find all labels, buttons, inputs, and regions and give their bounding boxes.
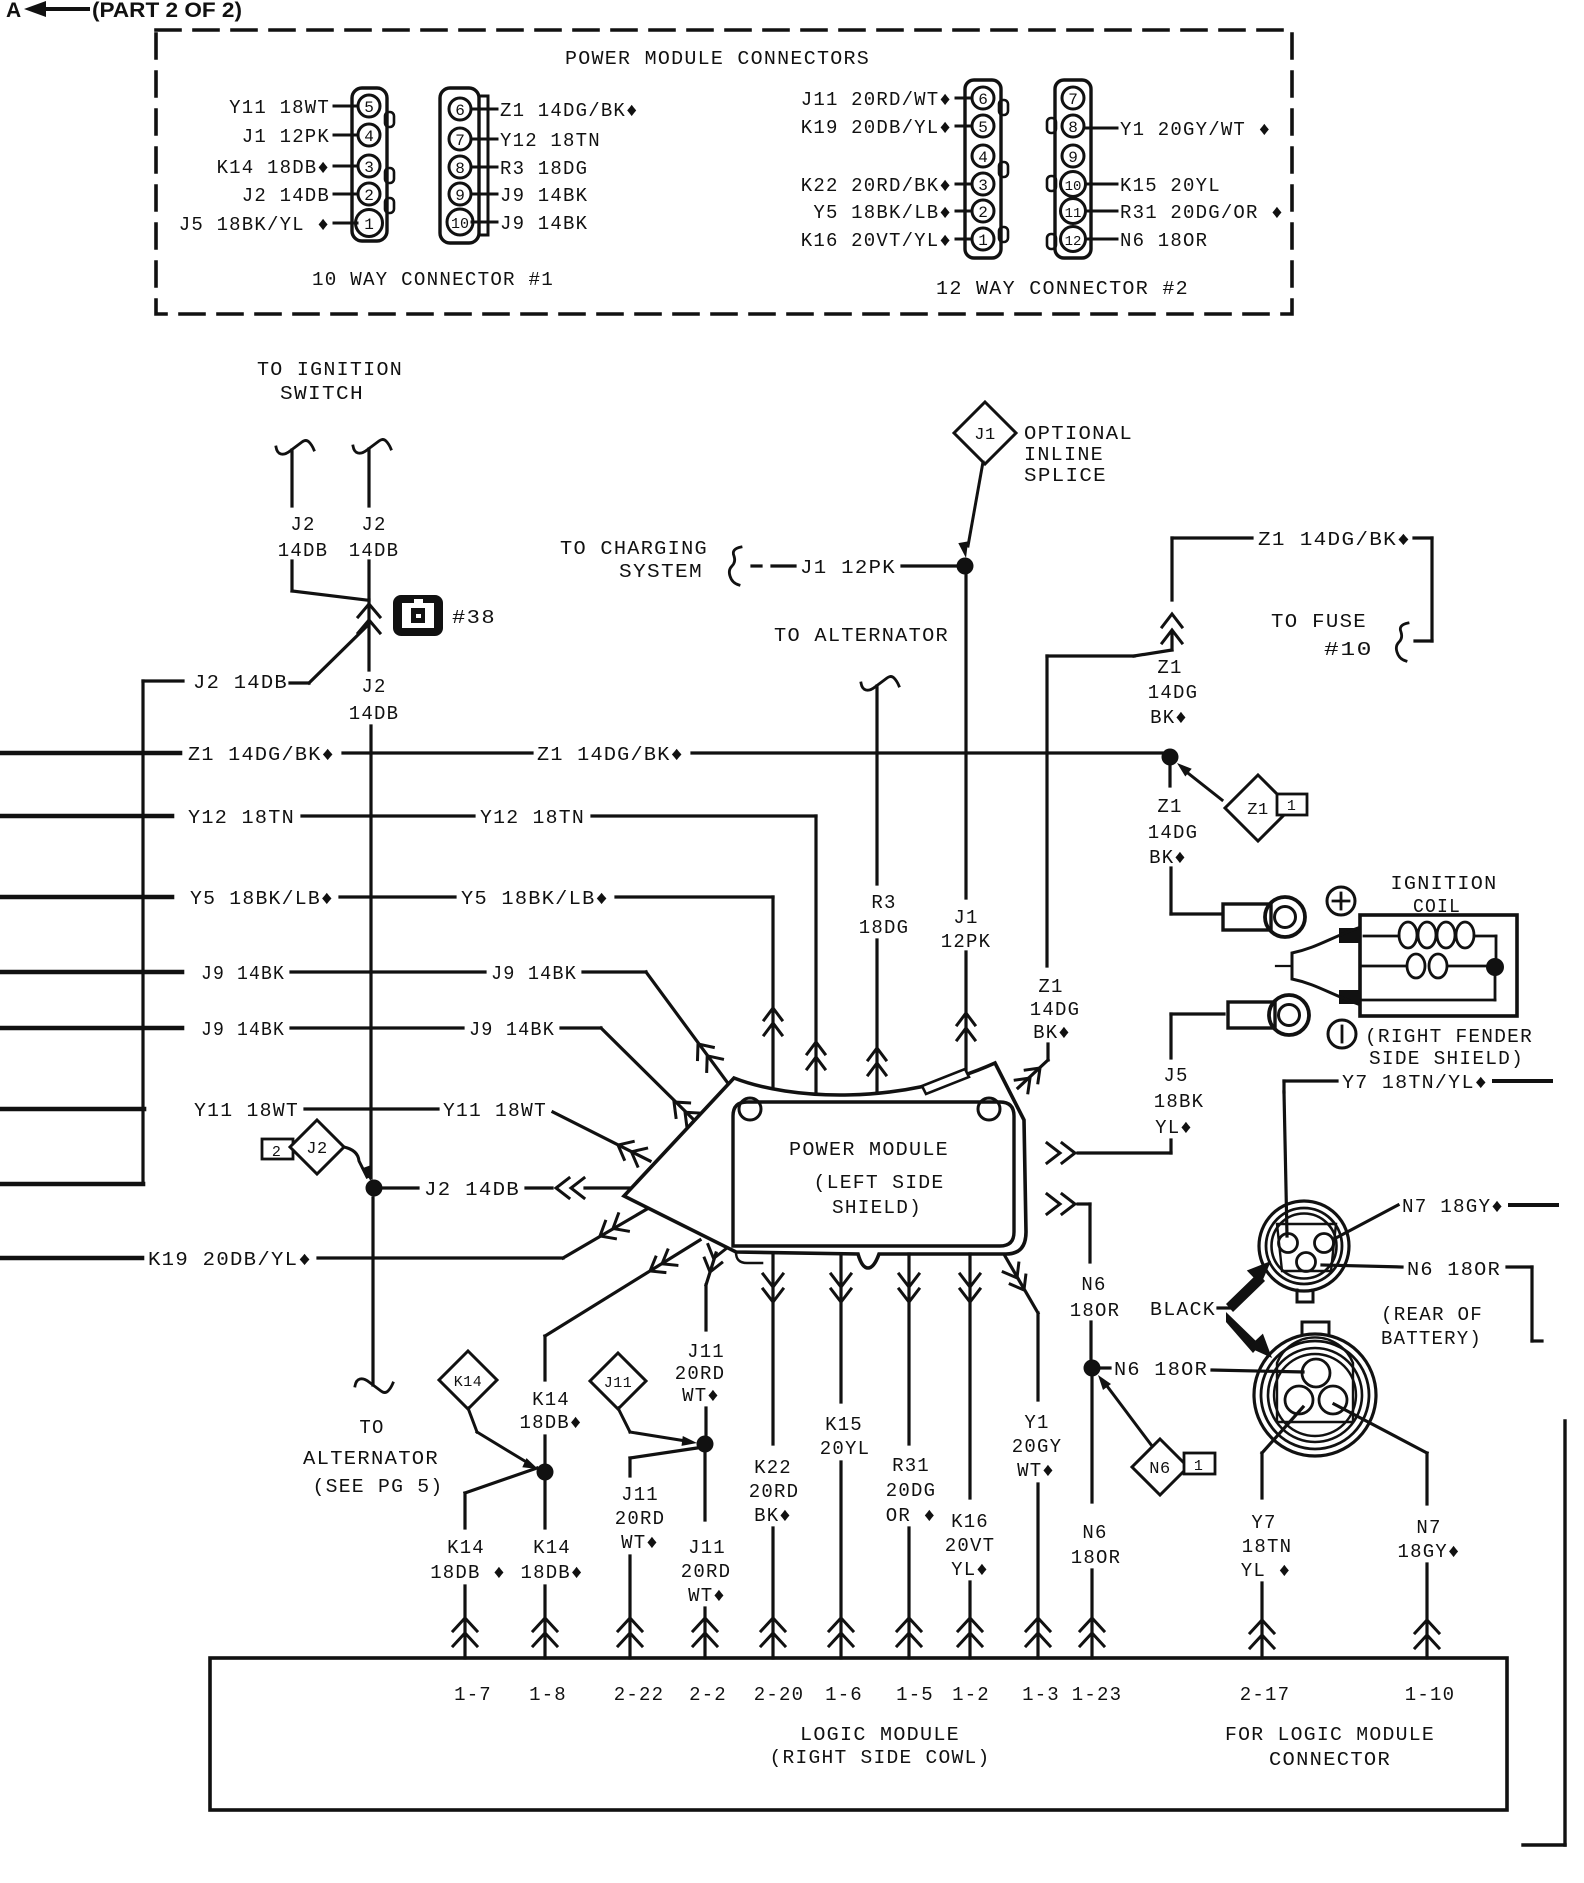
(REAR OF BATTERY) label xyxy=(1381,1304,1483,1350)
svg-text:SYSTEM: SYSTEM xyxy=(619,561,703,583)
wire Z1 14DG BK down to ring terminal xyxy=(1148,766,1222,914)
svg-text:11: 11 xyxy=(1065,206,1082,222)
svg-text:18DG: 18DG xyxy=(859,917,909,939)
svg-text:2: 2 xyxy=(364,187,374,205)
svg-text:K14: K14 xyxy=(454,1374,483,1391)
svg-text:R31: R31 xyxy=(892,1455,930,1477)
svg-text:2: 2 xyxy=(272,1144,282,1161)
svg-text:Z1: Z1 xyxy=(1247,801,1268,820)
svg-text:POWER MODULE CONNECTORS: POWER MODULE CONNECTORS xyxy=(565,48,870,70)
svg-text:N7 18GY♦: N7 18GY♦ xyxy=(1402,1196,1504,1218)
svg-text:14DB: 14DB xyxy=(278,540,328,562)
page header (PART 2 OF 2) with arrow xyxy=(6,0,242,22)
wire J5 18BK/YL from module to coil ring terminal xyxy=(1047,1014,1224,1163)
wire K15 20YL to pin 1-6 xyxy=(820,1254,870,1658)
svg-text:J2: J2 xyxy=(306,1140,327,1159)
wire J2 14DB right branch from ignition switch xyxy=(349,440,399,601)
svg-text:10 WAY CONNECTOR #1: 10 WAY CONNECTOR #1 xyxy=(312,269,554,291)
svg-text:K22: K22 xyxy=(754,1457,792,1479)
svg-text:#38: #38 xyxy=(452,607,496,629)
svg-text:J11: J11 xyxy=(687,1341,725,1363)
wire K22 20RD/BK to pin 2-20 xyxy=(749,1254,799,1658)
svg-text:5: 5 xyxy=(364,99,374,117)
svg-text:K22 20RD/BK♦: K22 20RD/BK♦ xyxy=(801,175,952,197)
svg-text:3: 3 xyxy=(978,177,988,195)
splice symbol N6 with code box 1 xyxy=(1098,1375,1215,1495)
connector C1-B pin labels xyxy=(472,100,639,235)
svg-text:K15: K15 xyxy=(825,1414,863,1436)
svg-text:J2 14DB: J2 14DB xyxy=(193,672,288,694)
svg-text:20RD: 20RD xyxy=(675,1363,725,1385)
svg-text:14DG: 14DG xyxy=(1148,822,1198,844)
svg-text:BK♦: BK♦ xyxy=(1150,707,1188,729)
svg-text:Y11 18WT: Y11 18WT xyxy=(443,1100,547,1122)
ignition coil (right fender side shield) xyxy=(1276,873,1533,1070)
svg-text:14DB: 14DB xyxy=(349,703,399,725)
wire J9 14BK lower xyxy=(0,1019,701,1128)
svg-text:TO CHARGING: TO CHARGING xyxy=(560,538,708,560)
svg-text:J2: J2 xyxy=(361,514,386,536)
battery connector lower (rear of battery) xyxy=(1254,1322,1376,1456)
splice symbol J11 xyxy=(590,1353,697,1446)
label N7 18GY upper with leader xyxy=(1334,1196,1557,1239)
connector C1 housing B (pins 6-10) xyxy=(440,88,488,243)
svg-text:1-7: 1-7 xyxy=(454,1684,492,1706)
svg-text:1-8: 1-8 xyxy=(529,1684,567,1706)
svg-text:K15 20YL: K15 20YL xyxy=(1120,175,1221,197)
caption 12 WAY CONNECTOR #2 xyxy=(936,278,1189,300)
svg-text:CONNECTOR: CONNECTOR xyxy=(1269,1749,1391,1771)
label N6 18OR lower left with leader xyxy=(1101,1359,1303,1381)
svg-text:POWER MODULE: POWER MODULE xyxy=(789,1139,949,1161)
svg-text:1: 1 xyxy=(978,232,988,250)
svg-text:R31 20DG/OR ♦: R31 20DG/OR ♦ xyxy=(1120,202,1284,224)
svg-text:BK♦: BK♦ xyxy=(1033,1022,1071,1044)
node J2 splice junction xyxy=(366,1180,383,1197)
svg-text:INLINE: INLINE xyxy=(1024,444,1104,466)
wire R3 18DG vertical to power module xyxy=(859,677,909,1099)
ring terminal upper (Z1 to coil +) xyxy=(1223,897,1305,937)
svg-text:18DB ♦: 18DB ♦ xyxy=(430,1562,506,1584)
svg-text:Y5 18BK/LB♦: Y5 18BK/LB♦ xyxy=(190,888,334,910)
wire J1 12PK horizontal xyxy=(729,547,958,585)
svg-text:Y7 18TN/YL♦: Y7 18TN/YL♦ xyxy=(1342,1072,1488,1094)
connector C2 housing A (pins 6-1) xyxy=(965,80,1008,258)
svg-text:OPTIONAL: OPTIONAL xyxy=(1024,423,1133,445)
svg-text:20RD: 20RD xyxy=(615,1508,665,1530)
svg-text:J9 14BK: J9 14BK xyxy=(201,1019,285,1041)
wire Y1 20GY/WT to pin 1-3 xyxy=(1003,1256,1062,1658)
page edge bracket right xyxy=(1523,1421,1565,1845)
svg-text:J9 14BK: J9 14BK xyxy=(500,185,588,207)
svg-text:Z1: Z1 xyxy=(1157,657,1182,679)
svg-text:Z1 14DG/BK♦: Z1 14DG/BK♦ xyxy=(188,744,335,766)
svg-text:1: 1 xyxy=(364,216,374,234)
wire N7 18GY to logic module pin 1-10 xyxy=(1334,1404,1461,1658)
svg-text:SHIELD): SHIELD) xyxy=(832,1197,922,1219)
svg-text:BK♦: BK♦ xyxy=(754,1505,792,1527)
svg-text:20GY: 20GY xyxy=(1012,1436,1062,1458)
svg-text:J2: J2 xyxy=(361,676,386,698)
svg-text:Y1: Y1 xyxy=(1024,1412,1049,1434)
svg-text:3: 3 xyxy=(364,159,374,177)
svg-text:20YL: 20YL xyxy=(820,1438,870,1460)
svg-text:BK♦: BK♦ xyxy=(1149,847,1187,869)
svg-text:4: 4 xyxy=(364,128,374,146)
svg-text:WT♦: WT♦ xyxy=(621,1532,659,1554)
svg-text:Z1: Z1 xyxy=(1157,796,1182,818)
label TO ALTERNATOR (SEE PG 5) xyxy=(303,1417,444,1498)
wire Y11 18WT horizontal xyxy=(0,1100,650,1166)
svg-text:R3 18DG: R3 18DG xyxy=(500,158,588,180)
svg-text:OR ♦: OR ♦ xyxy=(886,1505,936,1527)
svg-text:IGNITION: IGNITION xyxy=(1391,873,1498,895)
svg-text:18DB♦: 18DB♦ xyxy=(519,1412,582,1434)
wire K19 20DB/YL horizontal xyxy=(0,1209,647,1271)
svg-text:1-6: 1-6 xyxy=(825,1684,863,1706)
svg-text:LOGIC MODULE: LOGIC MODULE xyxy=(800,1724,960,1746)
label TO ALTERNATOR (R3) xyxy=(774,625,949,647)
wire J2 14DB into power module xyxy=(382,1178,630,1201)
wire N6 18OR from module right side xyxy=(1047,1194,1120,1362)
label TO IGNITION SWITCH xyxy=(257,359,403,405)
wire Z1 into power module top right xyxy=(1015,1044,1048,1093)
svg-text:Z1 14DG/BK♦: Z1 14DG/BK♦ xyxy=(1258,529,1411,551)
svg-text:1: 1 xyxy=(1194,1458,1204,1475)
svg-text:N6 18OR: N6 18OR xyxy=(1114,1359,1208,1381)
svg-text:YL ♦: YL ♦ xyxy=(1241,1560,1291,1582)
svg-text:SWITCH: SWITCH xyxy=(280,383,364,405)
svg-text:ALTERNATOR: ALTERNATOR xyxy=(303,1448,439,1470)
svg-text:SIDE SHIELD): SIDE SHIELD) xyxy=(1369,1048,1524,1070)
wire Y7 18TN/YL horizontal xyxy=(1284,1072,1551,1094)
wire J9 14BK upper xyxy=(0,963,730,1086)
label N6 18OR upper right with leader xyxy=(1322,1259,1542,1341)
svg-text:J11 20RD/WT♦: J11 20RD/WT♦ xyxy=(801,89,952,111)
svg-text:SPLICE: SPLICE xyxy=(1024,465,1107,487)
svg-text:A: A xyxy=(6,0,22,22)
node K14 splice junction xyxy=(537,1464,554,1481)
node N6 splice junction xyxy=(1084,1360,1101,1377)
svg-text:12 WAY CONNECTOR #2: 12 WAY CONNECTOR #2 xyxy=(936,278,1189,300)
splice symbol J1 optional inline splice xyxy=(954,402,1133,558)
svg-text:YL♦: YL♦ xyxy=(951,1559,989,1581)
svg-text:9: 9 xyxy=(455,187,465,205)
svg-text:J11: J11 xyxy=(604,1375,633,1392)
svg-text:Y11 18WT: Y11 18WT xyxy=(194,1100,299,1122)
node J1 splice junction xyxy=(957,558,974,575)
svg-text:TO: TO xyxy=(359,1417,384,1439)
svg-text:14DG: 14DG xyxy=(1148,682,1198,704)
svg-text:J9 14BK: J9 14BK xyxy=(491,963,577,985)
svg-text:7: 7 xyxy=(1068,91,1078,109)
svg-text:K19 20DB/YL♦: K19 20DB/YL♦ xyxy=(148,1249,312,1271)
svg-text:1: 1 xyxy=(1287,798,1297,815)
caption 10 WAY CONNECTOR #1 xyxy=(312,269,554,291)
svg-text:18TN: 18TN xyxy=(1242,1536,1292,1558)
wire K14 18DB branch to pin 1-7 xyxy=(430,1468,537,1658)
battery connector upper (rear of battery) xyxy=(1259,1201,1349,1302)
svg-text:N6 18OR: N6 18OR xyxy=(1120,230,1208,252)
svg-text:12PK: 12PK xyxy=(941,931,991,953)
connector C2-B pin labels xyxy=(1086,119,1284,252)
svg-text:2-20: 2-20 xyxy=(754,1684,804,1706)
svg-text:18OR: 18OR xyxy=(1070,1300,1120,1322)
wire J2 14DB main vertical run xyxy=(349,600,399,1393)
svg-text:10: 10 xyxy=(451,216,469,233)
svg-text:K16: K16 xyxy=(951,1511,989,1533)
svg-text:J2 14DB: J2 14DB xyxy=(424,1179,520,1201)
svg-text:Y12 18TN: Y12 18TN xyxy=(188,807,295,829)
svg-text:6: 6 xyxy=(455,102,465,120)
svg-text:(SEE PG 5): (SEE PG 5) xyxy=(313,1476,444,1498)
svg-text:Z1 14DG/BK♦: Z1 14DG/BK♦ xyxy=(537,744,684,766)
svg-text:Y5 18BK/LB♦: Y5 18BK/LB♦ xyxy=(461,888,609,910)
wire K14 18DB from module xyxy=(519,1240,700,1466)
svg-text:WT♦: WT♦ xyxy=(1017,1460,1055,1482)
svg-text:20RD: 20RD xyxy=(681,1561,731,1583)
node J11 splice junction xyxy=(697,1436,714,1453)
title POWER MODULE CONNECTORS xyxy=(565,48,870,70)
connector symbol #38 on J2 wire xyxy=(358,595,496,636)
svg-text:J2 14DB: J2 14DB xyxy=(242,185,330,207)
wire Z1 14DG/BK to fuse #10 xyxy=(1172,529,1432,661)
svg-text:1-2: 1-2 xyxy=(952,1684,990,1706)
wire J11 20RD/WT to logic module pin 2-2 xyxy=(681,1452,731,1658)
svg-text:BATTERY): BATTERY) xyxy=(1381,1328,1482,1350)
connector C2-A pin labels xyxy=(801,89,971,252)
wire Z1 14DG/BK horizontal bus xyxy=(0,744,1162,766)
svg-text:Y12 18TN: Y12 18TN xyxy=(480,807,585,829)
svg-text:K14: K14 xyxy=(533,1537,571,1559)
svg-text:Y1 20GY/WT ♦: Y1 20GY/WT ♦ xyxy=(1120,119,1271,141)
svg-text:7: 7 xyxy=(455,132,465,150)
ring terminal lower (J5 to coil -) xyxy=(1228,995,1309,1035)
svg-text:J1: J1 xyxy=(974,426,995,445)
svg-text:#10: #10 xyxy=(1324,639,1373,661)
svg-text:1-23: 1-23 xyxy=(1072,1684,1122,1706)
wire Y5 18BK/LB horizontal xyxy=(0,888,782,1093)
splice symbol J2 with code box 2 xyxy=(262,1120,371,1181)
svg-text:J5: J5 xyxy=(1163,1065,1188,1087)
svg-text:8: 8 xyxy=(455,160,465,178)
svg-text:R3: R3 xyxy=(871,892,896,914)
svg-text:Y5 18BK/LB♦: Y5 18BK/LB♦ xyxy=(813,202,952,224)
svg-text:12: 12 xyxy=(1065,234,1082,250)
svg-text:K14: K14 xyxy=(532,1389,570,1411)
svg-text:18GY♦: 18GY♦ xyxy=(1397,1541,1460,1563)
svg-text:2-2: 2-2 xyxy=(689,1684,727,1706)
svg-text:18OR: 18OR xyxy=(1071,1547,1121,1569)
svg-text:WT♦: WT♦ xyxy=(688,1585,726,1607)
splice symbol K14 xyxy=(439,1351,538,1469)
svg-text:Y7: Y7 xyxy=(1251,1512,1276,1534)
svg-text:(PART 2 OF 2): (PART 2 OF 2) xyxy=(92,0,242,22)
svg-text:20RD: 20RD xyxy=(749,1481,799,1503)
svg-text:K19 20DB/YL♦: K19 20DB/YL♦ xyxy=(801,117,952,139)
svg-text:K14: K14 xyxy=(447,1537,485,1559)
node Z1 junction at coil feed xyxy=(1162,749,1179,766)
wire K16 20VT/YL to pin 1-2 xyxy=(945,1254,995,1658)
svg-text:2-22: 2-22 xyxy=(614,1684,664,1706)
svg-text:J9 14BK: J9 14BK xyxy=(500,213,588,235)
wire J11 20RD/WT from module xyxy=(675,1245,726,1438)
svg-text:N6: N6 xyxy=(1149,1460,1170,1479)
wire J2 14DB stub to left bracket xyxy=(0,626,367,1184)
svg-text:18BK: 18BK xyxy=(1154,1091,1204,1113)
svg-text:10: 10 xyxy=(1065,179,1082,195)
svg-text:1-3: 1-3 xyxy=(1022,1684,1060,1706)
svg-text:Z1: Z1 xyxy=(1038,976,1063,998)
svg-text:J1 12PK: J1 12PK xyxy=(242,126,330,148)
svg-text:20DG: 20DG xyxy=(886,1480,936,1502)
svg-text:J11: J11 xyxy=(621,1484,659,1506)
svg-text:(LEFT SIDE: (LEFT SIDE xyxy=(814,1172,945,1194)
svg-text:YL♦: YL♦ xyxy=(1155,1117,1193,1139)
svg-text:8: 8 xyxy=(1068,119,1078,137)
svg-text:J1 12PK: J1 12PK xyxy=(800,557,896,579)
svg-text:TO FUSE: TO FUSE xyxy=(1271,611,1367,633)
wire R31 20DG/OR to pin 1-5 xyxy=(886,1254,936,1658)
label TO CHARGING SYSTEM xyxy=(560,538,708,583)
connector C1 housing A (pins 5-1) xyxy=(352,88,394,241)
svg-text:J9 14BK: J9 14BK xyxy=(469,1019,555,1041)
wire N6 18OR to logic module pin 1-23 xyxy=(1071,1374,1121,1658)
wire K14 18DB to logic module pin 1-8 xyxy=(520,1480,583,1658)
svg-text:Z1 14DG/BK♦: Z1 14DG/BK♦ xyxy=(500,100,639,122)
wire Y7 leader to battery connector pin xyxy=(1284,1092,1287,1236)
svg-text:N6: N6 xyxy=(1082,1522,1107,1544)
wire J1 12PK vertical to power module xyxy=(941,574,991,1082)
svg-text:FOR LOGIC MODULE: FOR LOGIC MODULE xyxy=(1225,1724,1435,1746)
logic module pin numbers xyxy=(454,1684,1455,1706)
svg-text:9: 9 xyxy=(1068,149,1078,167)
svg-text:N6: N6 xyxy=(1081,1274,1106,1296)
svg-text:4: 4 xyxy=(978,149,988,167)
label TO FUSE #10 xyxy=(1271,611,1373,661)
power module (left side shield) body xyxy=(624,1063,1026,1268)
label Z1 14DG BK above module xyxy=(1030,976,1080,1044)
svg-text:Y11 18WT: Y11 18WT xyxy=(229,97,330,119)
svg-text:TO ALTERNATOR: TO ALTERNATOR xyxy=(774,625,949,647)
svg-text:1-10: 1-10 xyxy=(1405,1684,1455,1706)
svg-text:TO IGNITION: TO IGNITION xyxy=(257,359,403,381)
svg-text:(RIGHT FENDER: (RIGHT FENDER xyxy=(1365,1026,1533,1048)
wire Z1 14DG/BK vertical above junction xyxy=(1047,538,1198,966)
logic module box xyxy=(210,1658,1507,1810)
wire J11 20RD/WT branch to pin 2-22 xyxy=(615,1448,697,1658)
power module connectors dashed box xyxy=(156,30,1292,314)
wire Y12 18TN horizontal xyxy=(0,807,825,1096)
svg-text:K14 18DB♦: K14 18DB♦ xyxy=(217,157,330,179)
svg-text:BLACK: BLACK xyxy=(1150,1299,1216,1321)
svg-text:N7: N7 xyxy=(1416,1517,1441,1539)
connector C1-A pin labels xyxy=(179,97,357,236)
svg-text:14DG: 14DG xyxy=(1030,999,1080,1021)
wire J2 14DB left branch from ignition switch xyxy=(276,441,366,601)
svg-text:J9 14BK: J9 14BK xyxy=(201,963,285,985)
svg-text:J2: J2 xyxy=(290,514,315,536)
svg-text:Y12 18TN: Y12 18TN xyxy=(500,130,601,152)
svg-text:J11: J11 xyxy=(688,1537,726,1559)
svg-text:(REAR OF: (REAR OF xyxy=(1381,1304,1483,1326)
svg-text:18DB♦: 18DB♦ xyxy=(520,1562,583,1584)
svg-text:5: 5 xyxy=(978,119,988,137)
svg-text:2: 2 xyxy=(978,204,988,222)
svg-text:J1: J1 xyxy=(953,907,978,929)
svg-text:6: 6 xyxy=(978,91,988,109)
wire Y7 18TN/YL to logic module pin 2-17 xyxy=(1241,1407,1303,1658)
connector C2 housing B (pins 7-12) xyxy=(1047,80,1091,258)
svg-text:(RIGHT SIDE COWL): (RIGHT SIDE COWL) xyxy=(770,1747,991,1769)
svg-text:14DB: 14DB xyxy=(349,540,399,562)
label BLACK with arrows to connectors xyxy=(1150,1261,1272,1358)
svg-text:20VT: 20VT xyxy=(945,1535,995,1557)
svg-text:N6 18OR: N6 18OR xyxy=(1407,1259,1501,1281)
svg-text:2-17: 2-17 xyxy=(1240,1684,1290,1706)
svg-text:1-5: 1-5 xyxy=(896,1684,934,1706)
svg-text:WT♦: WT♦ xyxy=(682,1385,720,1407)
splice symbol Z1 xyxy=(1177,763,1307,841)
svg-text:K16 20VT/YL♦: K16 20VT/YL♦ xyxy=(801,230,952,252)
svg-text:J5 18BK/YL ♦: J5 18BK/YL ♦ xyxy=(179,214,330,236)
